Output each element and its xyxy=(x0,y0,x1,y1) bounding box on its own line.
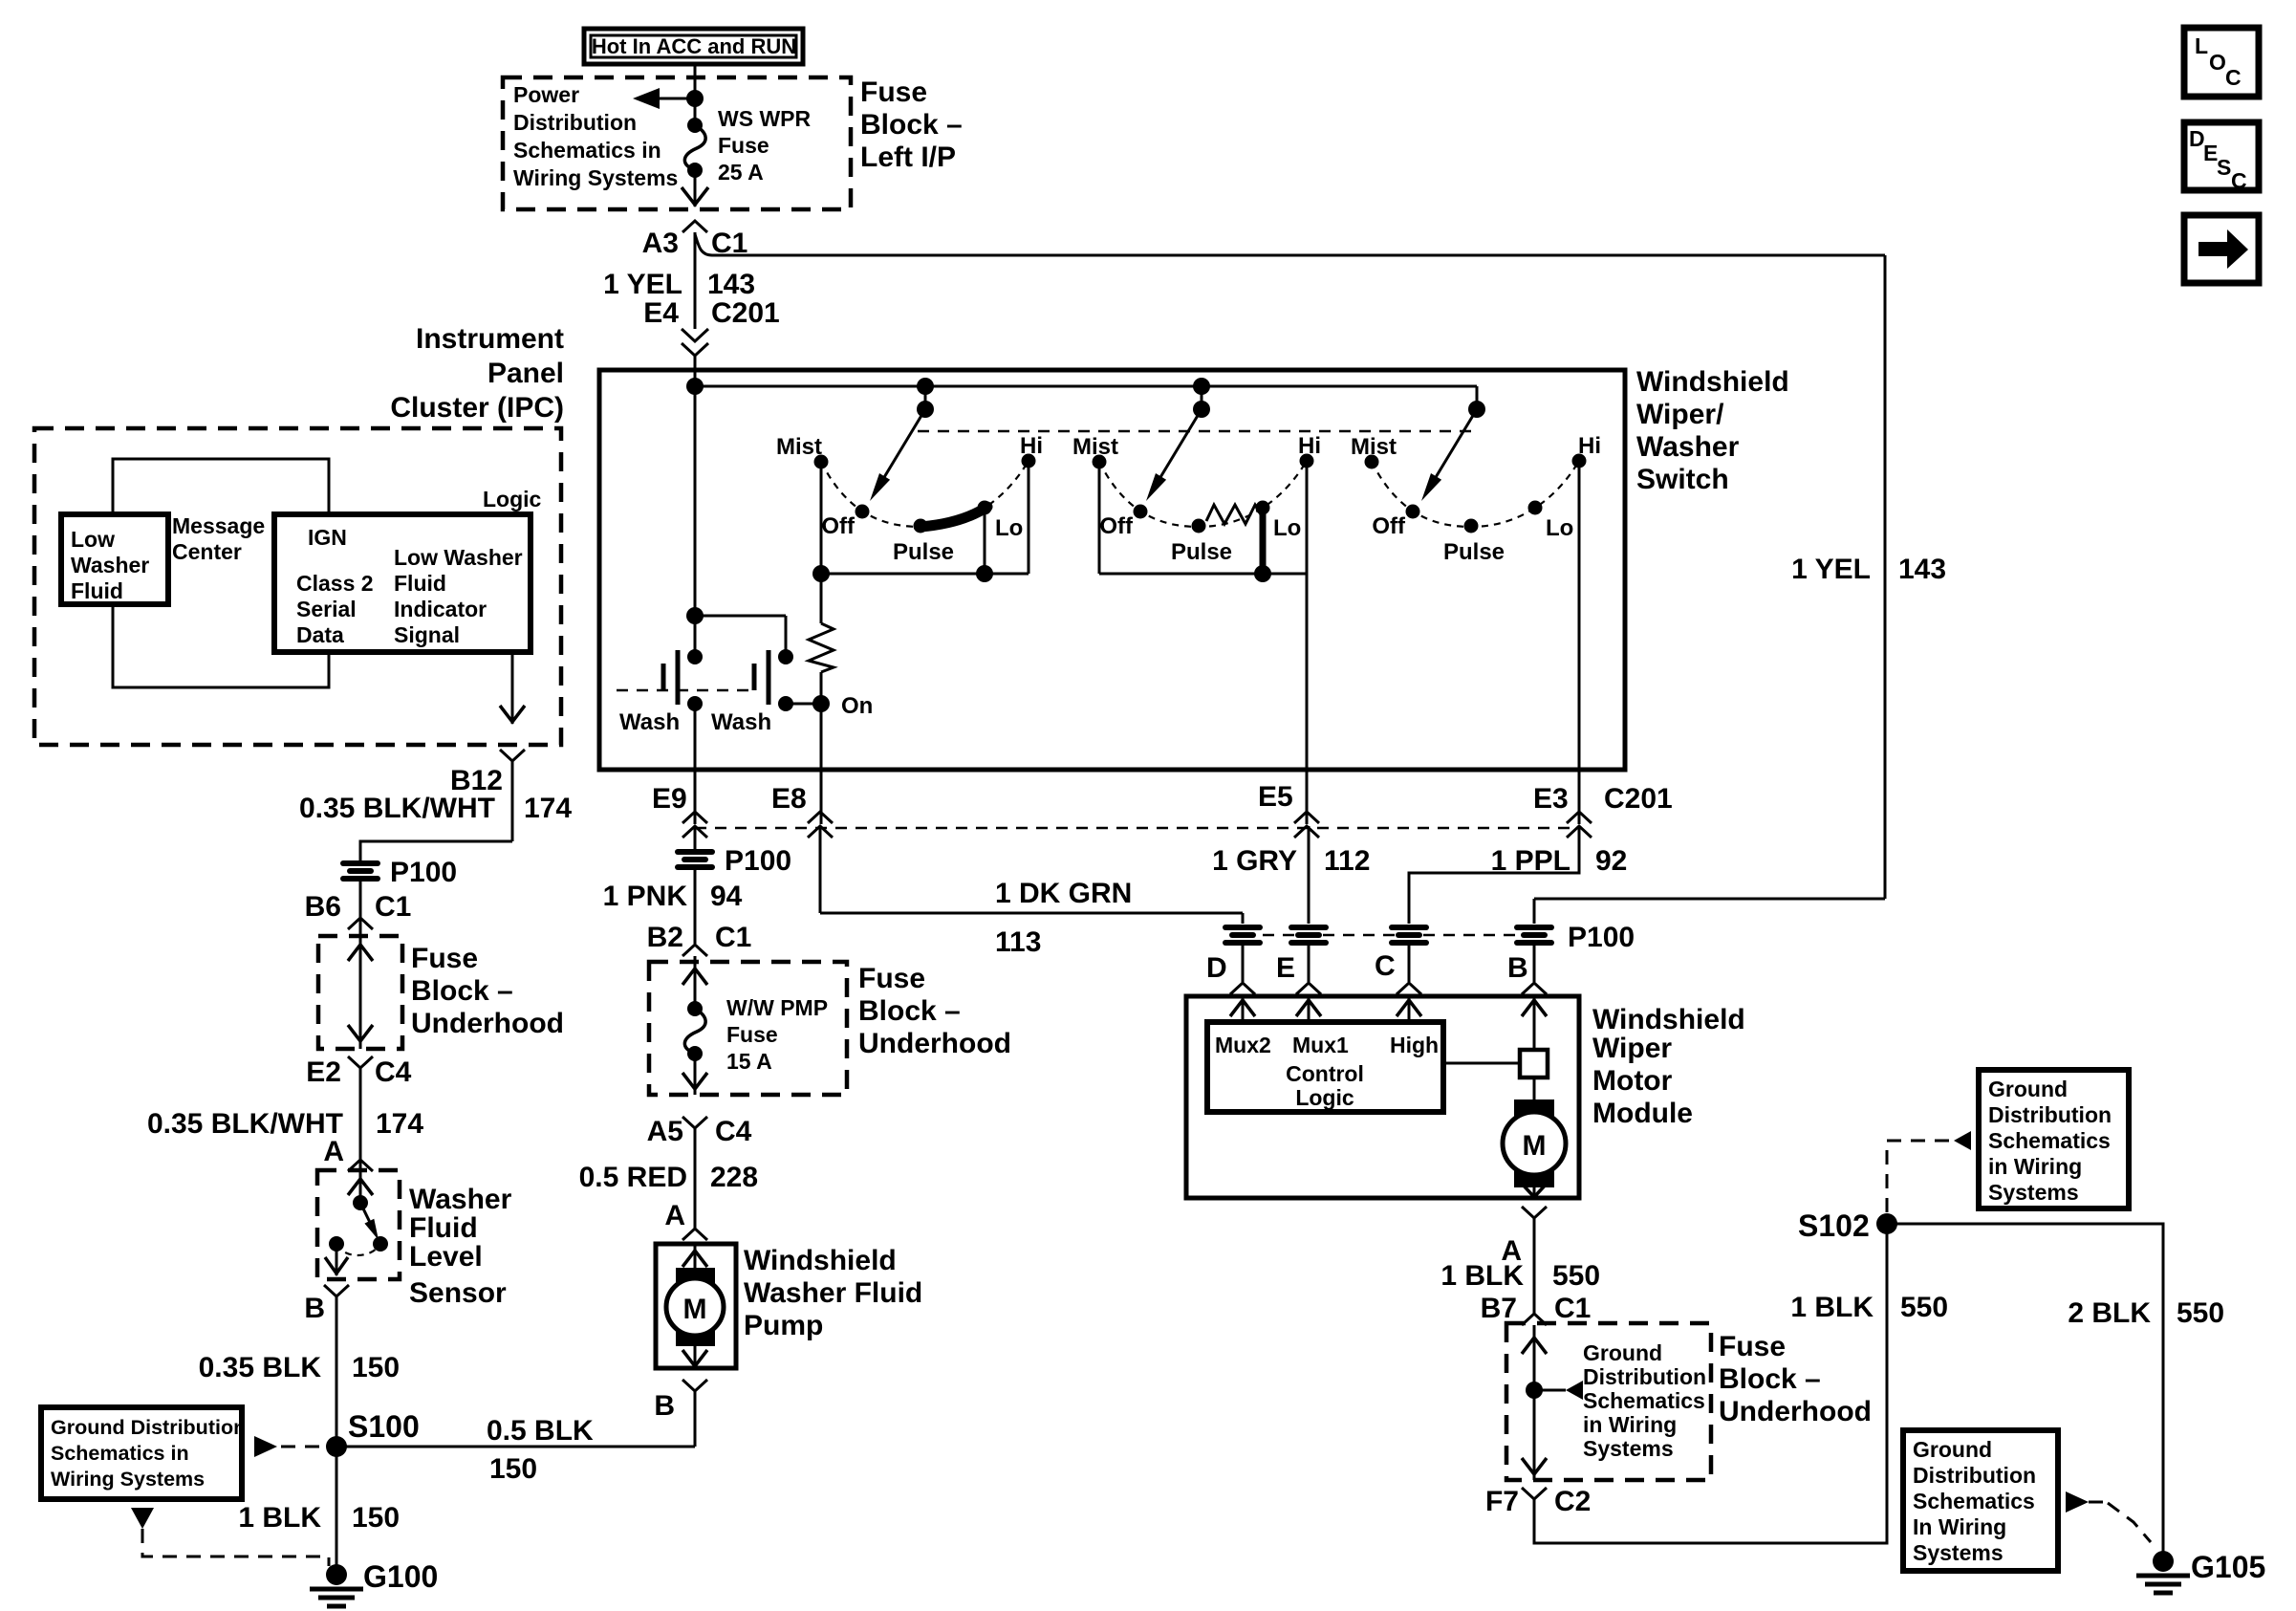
svg-text:Fuse: Fuse xyxy=(858,963,925,994)
wire label 1 BLK 150 xyxy=(238,1502,400,1534)
svg-text:C201: C201 xyxy=(711,297,780,329)
svg-text:Data: Data xyxy=(296,622,344,647)
svg-text:Instrument: Instrument xyxy=(416,323,564,355)
svg-text:C: C xyxy=(1375,950,1396,982)
svg-text:B: B xyxy=(304,1293,325,1324)
svg-text:Washer Fluid: Washer Fluid xyxy=(744,1277,922,1309)
svg-text:112: 112 xyxy=(1324,845,1370,877)
pin A washer fluid level sensor xyxy=(323,1136,373,1171)
svg-text:E9: E9 xyxy=(652,783,687,815)
fuse W/W PMP 15 A xyxy=(684,995,828,1074)
svg-text:Off: Off xyxy=(1099,513,1134,539)
svg-text:Lo: Lo xyxy=(995,515,1023,541)
wire from Hot In box into fuse block xyxy=(694,64,697,125)
svg-text:S: S xyxy=(2217,155,2231,180)
svg-text:Windshield: Windshield xyxy=(1592,1004,1745,1035)
rotary switch 1 dashed contact arc xyxy=(821,461,1029,527)
svg-text:0.35 BLK: 0.35 BLK xyxy=(199,1352,322,1383)
wire label 0.5 BLK 150 xyxy=(487,1415,594,1485)
connector B2 / C1 xyxy=(647,922,752,956)
motor output arrow xyxy=(1522,1184,1547,1197)
pump output arrow xyxy=(682,1346,707,1368)
reference arrow to G105 xyxy=(2066,1491,2151,1542)
svg-text:0.5 BLK: 0.5 BLK xyxy=(487,1415,594,1447)
label Washer Fluid Level Sensor xyxy=(409,1184,512,1309)
control logic box xyxy=(1207,1022,1443,1112)
connector A5 / C4 xyxy=(647,1116,752,1229)
wire 1 YEL right side vertical xyxy=(1534,255,1946,924)
rotary switch 3 dashed contact arc xyxy=(1372,461,1579,527)
svg-text:Ground: Ground xyxy=(1913,1437,1992,1462)
svg-text:Mist: Mist xyxy=(776,434,822,460)
wire E3 to C with label 1 PPL 92 xyxy=(1409,826,1627,924)
switch 1 wiring to output xyxy=(812,461,1029,582)
wire label 1 BLK 550 (S102) xyxy=(1790,1292,1948,1323)
svg-text:Schematics: Schematics xyxy=(1988,1128,2111,1153)
svg-text:Washer: Washer xyxy=(71,553,149,577)
svg-text:150: 150 xyxy=(352,1352,400,1383)
svg-text:C1: C1 xyxy=(1554,1293,1591,1324)
svg-text:0.35 BLK/WHT: 0.35 BLK/WHT xyxy=(147,1108,343,1140)
svg-text:Washer: Washer xyxy=(1636,431,1740,463)
svg-text:Mist: Mist xyxy=(1072,434,1118,460)
svg-text:Power: Power xyxy=(513,82,579,107)
svg-text:Ground: Ground xyxy=(1988,1077,2068,1101)
svg-text:Fuse: Fuse xyxy=(726,1022,778,1047)
power feed label box "Hot In ACC and RUN" xyxy=(584,29,803,64)
svg-text:Fuse: Fuse xyxy=(860,76,927,108)
svg-text:Fuse: Fuse xyxy=(718,133,769,158)
wire message center to logic (top) xyxy=(113,459,329,514)
wire label 2 BLK 550 xyxy=(2068,1297,2224,1329)
svg-text:Center: Center xyxy=(172,539,242,564)
dashed reference S102 to ground distribution box xyxy=(1887,1131,1971,1212)
ground distribution reference box (bottom right) xyxy=(1903,1430,2058,1571)
svg-text:B7: B7 xyxy=(1481,1293,1517,1324)
svg-text:1 GRY: 1 GRY xyxy=(1212,845,1297,877)
svg-text:Systems: Systems xyxy=(1913,1540,2004,1565)
relay contact square xyxy=(1443,1050,1548,1078)
reference arrow to S100 xyxy=(254,1436,325,1457)
ground distribution reference box (bottom left) xyxy=(41,1407,246,1499)
instrument panel cluster dashed box xyxy=(34,428,561,745)
svg-text:Off: Off xyxy=(821,513,856,539)
svg-text:Off: Off xyxy=(1372,513,1406,539)
svg-text:Block –: Block – xyxy=(411,975,513,1007)
svg-text:Underhood: Underhood xyxy=(411,1008,564,1039)
svg-text:Message: Message xyxy=(172,513,265,538)
splice S102 xyxy=(1798,1208,1897,1243)
low washer fluid telltale box xyxy=(61,514,168,604)
wash switch branch wire xyxy=(686,607,786,657)
svg-text:Block –: Block – xyxy=(1719,1363,1821,1395)
grommet D xyxy=(1223,925,1263,946)
switch 1 contacts xyxy=(814,454,1036,533)
svg-text:Block –: Block – xyxy=(860,109,963,141)
grommet P100 row dashed link xyxy=(1243,934,1534,937)
svg-text:Level: Level xyxy=(409,1241,483,1273)
fuse block underhood dashed box (right) xyxy=(1506,1323,1711,1480)
svg-text:Cluster (IPC): Cluster (IPC) xyxy=(390,392,564,424)
svg-text:25 A: 25 A xyxy=(718,160,764,185)
fuse block underhood dashed box (middle) xyxy=(649,962,847,1095)
svg-text:15 A: 15 A xyxy=(726,1049,772,1074)
svg-text:B2: B2 xyxy=(647,922,683,953)
svg-text:150: 150 xyxy=(489,1453,537,1485)
svg-text:E5: E5 xyxy=(1258,781,1293,813)
svg-text:Fluid: Fluid xyxy=(409,1212,478,1244)
svg-text:S100: S100 xyxy=(348,1409,420,1444)
label Message Center xyxy=(172,513,265,564)
wire F7 to S102 xyxy=(1534,1224,1887,1543)
wire E8 to 1 DK GRN run xyxy=(820,826,1243,924)
svg-text:Logic: Logic xyxy=(483,487,542,512)
reference arrow to G100 xyxy=(131,1508,329,1566)
svg-text:Mux1: Mux1 xyxy=(1292,1033,1349,1057)
wire switch 2 Hi to E5 exit xyxy=(1306,461,1309,824)
switch 3 position labels xyxy=(1351,433,1601,565)
svg-text:550: 550 xyxy=(1900,1292,1948,1323)
wire label 0.35 BLK/WHT 174 (IPC) xyxy=(299,793,572,824)
svg-text:1 YEL: 1 YEL xyxy=(603,269,682,300)
svg-text:174: 174 xyxy=(524,793,572,824)
svg-text:Class 2: Class 2 xyxy=(296,571,374,596)
wash switch 1 (on E9 wire) xyxy=(663,386,703,711)
node junction at fuse feed xyxy=(686,90,704,107)
svg-text:Signal: Signal xyxy=(394,622,460,647)
svg-text:Distribution: Distribution xyxy=(1583,1364,1706,1389)
module B input arrow xyxy=(1522,996,1547,1050)
svg-text:92: 92 xyxy=(1595,845,1627,877)
switch arm arrow 2 xyxy=(1146,409,1202,501)
svg-text:Hi: Hi xyxy=(1298,433,1321,459)
On contact xyxy=(812,693,873,719)
svg-text:WS WPR: WS WPR xyxy=(718,106,811,131)
wire E9 to P100 xyxy=(694,826,697,850)
connector B12 (double chevron below IPC box) xyxy=(450,750,525,841)
svg-text:Fluid: Fluid xyxy=(71,578,123,603)
ground distribution reference box (top right) xyxy=(1979,1070,2129,1208)
svg-text:Distribution: Distribution xyxy=(1913,1463,2036,1488)
svg-text:On: On xyxy=(841,693,873,719)
svg-text:A: A xyxy=(323,1136,344,1167)
sensor output arrow xyxy=(325,1244,348,1275)
wire logic output to B12 with arrow xyxy=(500,652,525,724)
wire switch 3 Hi to E3 exit xyxy=(1578,461,1581,824)
svg-text:E2: E2 xyxy=(306,1056,341,1088)
label Windshield Washer Fluid Pump xyxy=(744,1245,922,1341)
svg-text:150: 150 xyxy=(352,1502,400,1534)
wire label 1 GRY 112 xyxy=(1212,826,1370,924)
svg-text:Switch: Switch xyxy=(1636,464,1729,495)
svg-text:0.35 BLK/WHT: 0.35 BLK/WHT xyxy=(299,793,495,824)
svg-text:Wiring Systems: Wiring Systems xyxy=(51,1468,205,1491)
svg-text:C2: C2 xyxy=(1554,1486,1591,1517)
connector pin B of sensor xyxy=(304,1285,349,1447)
wire S100 to pump B xyxy=(336,1446,695,1448)
label Fuse Block - Underhood (right) xyxy=(1719,1331,1872,1427)
connector E8 xyxy=(771,783,833,838)
svg-text:G105: G105 xyxy=(2191,1550,2265,1584)
svg-text:C4: C4 xyxy=(715,1116,752,1147)
connector E5 xyxy=(1258,781,1319,838)
svg-text:Schematics: Schematics xyxy=(1583,1388,1705,1413)
svg-text:228: 228 xyxy=(710,1162,758,1193)
module input arrows D E C xyxy=(1230,996,1255,1022)
svg-text:1 YEL: 1 YEL xyxy=(1791,554,1871,585)
wire label 0.35 BLK 150 xyxy=(199,1352,400,1383)
svg-text:1 BLK: 1 BLK xyxy=(1440,1260,1524,1292)
wiper motor M xyxy=(1503,1078,1566,1187)
wire label 0.5 RED 228 xyxy=(579,1162,758,1193)
svg-text:G100: G100 xyxy=(363,1559,438,1594)
svg-text:0.5 RED: 0.5 RED xyxy=(579,1162,687,1193)
svg-text:Schematics: Schematics xyxy=(1913,1489,2035,1513)
next page arrow button xyxy=(2184,215,2259,283)
pin B of pump xyxy=(654,1380,707,1447)
note: Power Distribution Schematics in Wiring Systems xyxy=(513,82,678,190)
svg-text:B: B xyxy=(654,1390,675,1422)
svg-text:1 DK GRN: 1 DK GRN xyxy=(995,878,1132,909)
dashed wash linkage xyxy=(617,689,751,692)
svg-text:in Wiring: in Wiring xyxy=(1988,1154,2082,1179)
svg-text:Distribution: Distribution xyxy=(513,110,637,135)
svg-text:B: B xyxy=(1507,952,1528,984)
switch arm arrow 1 xyxy=(870,409,925,501)
svg-text:143: 143 xyxy=(707,269,755,300)
logic box xyxy=(274,514,531,652)
wire into box with up arrow xyxy=(1522,1325,1547,1390)
dashed mechanical linkage of switch arms xyxy=(918,430,1477,433)
splice S100 xyxy=(326,1409,420,1457)
svg-text:M: M xyxy=(683,1294,707,1325)
svg-text:Windshield: Windshield xyxy=(1636,366,1789,398)
svg-text:Hot In ACC and RUN: Hot In ACC and RUN xyxy=(592,34,796,58)
svg-text:Distribution: Distribution xyxy=(1988,1102,2112,1127)
svg-text:Systems: Systems xyxy=(1583,1436,1674,1461)
grommet P100 (middle) xyxy=(675,845,791,877)
svg-text:Underhood: Underhood xyxy=(858,1028,1011,1059)
wash labels xyxy=(619,709,771,735)
fuse block underhood dashed box (left) xyxy=(318,936,402,1049)
svg-text:F7: F7 xyxy=(1485,1486,1519,1517)
label Windshield Wiper Motor Module xyxy=(1592,1004,1745,1129)
svg-text:Wiper/: Wiper/ xyxy=(1636,399,1724,430)
svg-text:O: O xyxy=(2209,50,2226,75)
switch 2 wiring to output xyxy=(1099,462,1307,582)
wash switch 2 xyxy=(754,649,821,711)
svg-text:Lo: Lo xyxy=(1273,515,1301,541)
svg-text:A3: A3 xyxy=(642,228,679,259)
svg-text:High: High xyxy=(1390,1033,1439,1057)
pump motor M xyxy=(666,1268,724,1346)
label Fuse Block - Underhood (left) xyxy=(411,943,564,1039)
svg-text:L: L xyxy=(2195,33,2208,58)
switch 2 contacts xyxy=(1093,454,1314,533)
switch 1 wiper thick arc Pulse to Lo xyxy=(921,507,987,527)
label Windshield Wiper/Washer Switch xyxy=(1636,366,1789,495)
svg-text:Indicator: Indicator xyxy=(394,597,487,621)
svg-text:A5: A5 xyxy=(647,1116,683,1147)
label Fuse Block - Left I/P xyxy=(860,76,963,173)
svg-text:C1: C1 xyxy=(715,922,751,953)
fuse block left I/P dashed box xyxy=(503,77,851,209)
switch 2 resistor on arc xyxy=(1206,505,1262,524)
switch 1 position labels xyxy=(776,433,1043,565)
svg-text:550: 550 xyxy=(1552,1260,1600,1292)
grommet C xyxy=(1389,925,1429,946)
label Fuse Block - Underhood (middle) xyxy=(858,963,1011,1059)
sensor input arrow xyxy=(348,1170,373,1203)
svg-text:Ground: Ground xyxy=(1583,1340,1662,1365)
svg-text:Block –: Block – xyxy=(858,995,961,1027)
svg-text:Pulse: Pulse xyxy=(1171,539,1232,565)
wire B12 down to P100 xyxy=(360,841,512,862)
connector E9 xyxy=(652,783,707,838)
wire branch C1 to right (1 YEL 143 feed) xyxy=(695,234,1885,255)
wire fuse to connector A3 with down arrow xyxy=(682,170,708,207)
label Instrument Panel Cluster (IPC) xyxy=(390,323,564,424)
svg-text:Mux2: Mux2 xyxy=(1215,1033,1271,1057)
connector E3 / C201 xyxy=(1533,783,1673,838)
wire message center to logic (bottom) xyxy=(113,604,329,687)
LOC reference button xyxy=(2184,28,2259,97)
svg-text:C: C xyxy=(2225,65,2242,90)
svg-text:Pulse: Pulse xyxy=(893,539,954,565)
svg-text:M: M xyxy=(1523,1130,1547,1162)
svg-text:E: E xyxy=(1276,952,1295,984)
svg-text:94: 94 xyxy=(710,881,743,912)
svg-text:D: D xyxy=(1206,952,1227,984)
svg-text:C4: C4 xyxy=(375,1056,412,1088)
resistor in switch 1 output xyxy=(809,574,834,704)
pin A of washer pump xyxy=(664,1200,707,1240)
rotary switch 2 dashed contact arc xyxy=(1099,461,1307,527)
wire label 0.35 BLK/WHT 174 (sensor) xyxy=(147,1108,423,1140)
svg-text:Systems: Systems xyxy=(1988,1180,2079,1205)
svg-text:Panel: Panel xyxy=(487,358,564,389)
svg-text:P100: P100 xyxy=(1568,922,1635,953)
svg-text:Logic: Logic xyxy=(1295,1085,1354,1110)
ground distribution reference inside fuse block xyxy=(1526,1340,1706,1461)
svg-text:in Wiring: in Wiring xyxy=(1583,1412,1677,1437)
svg-text:IGN: IGN xyxy=(308,525,347,550)
svg-text:1 BLK: 1 BLK xyxy=(238,1502,321,1534)
connector A3 / C1 xyxy=(642,221,748,259)
svg-text:Mist: Mist xyxy=(1351,434,1397,460)
ground G105 xyxy=(2136,1550,2265,1593)
wire label 1 DK GRN 113 xyxy=(995,878,1132,958)
connector E2 / C4 xyxy=(306,1056,411,1170)
svg-text:Control: Control xyxy=(1286,1061,1364,1086)
svg-text:Module: Module xyxy=(1592,1098,1693,1129)
svg-text:C201: C201 xyxy=(1604,783,1673,815)
svg-text:Schematics in: Schematics in xyxy=(51,1442,189,1465)
svg-text:W/W PMP: W/W PMP xyxy=(726,995,828,1020)
wire through fuse block with arrows xyxy=(348,936,373,1049)
wire P100 to fuse block underhood xyxy=(359,882,362,936)
svg-text:Wiring Systems: Wiring Systems xyxy=(513,165,678,190)
grommet B with label P100 xyxy=(1514,922,1635,953)
svg-text:E3: E3 xyxy=(1533,783,1569,815)
svg-text:Wiper: Wiper xyxy=(1592,1033,1672,1064)
arrow to power distribution reference xyxy=(633,88,695,109)
svg-text:Ground Distribution: Ground Distribution xyxy=(51,1416,246,1439)
svg-text:Low Washer: Low Washer xyxy=(394,545,523,570)
svg-text:143: 143 xyxy=(1898,554,1946,585)
svg-text:Windshield: Windshield xyxy=(744,1245,897,1276)
fuse WS WPR 25 A xyxy=(684,106,811,185)
svg-text:E8: E8 xyxy=(771,783,807,815)
windshield wiper/washer switch box xyxy=(599,370,1625,770)
svg-text:Low: Low xyxy=(71,527,115,552)
svg-text:Pump: Pump xyxy=(744,1310,823,1341)
switch 3 contacts xyxy=(1365,454,1587,533)
windshield wiper motor module box xyxy=(1186,996,1579,1198)
wire On to E8 exit xyxy=(820,704,823,824)
svg-text:P100: P100 xyxy=(725,845,791,877)
svg-text:1 PNK: 1 PNK xyxy=(603,881,688,912)
switch arm arrow 3 xyxy=(1421,409,1477,501)
grommet E xyxy=(1289,925,1329,946)
connector F7 / C2 xyxy=(1485,1486,1591,1517)
wire label 1 PNK 94 xyxy=(603,870,743,944)
svg-text:Hi: Hi xyxy=(1020,433,1043,459)
svg-text:174: 174 xyxy=(376,1108,423,1140)
svg-text:B6: B6 xyxy=(305,891,341,923)
wire out of box with down arrow xyxy=(1522,1390,1547,1480)
windshield washer fluid pump box xyxy=(656,1244,736,1368)
grommet P100 (left) xyxy=(340,857,457,888)
svg-text:Fluid: Fluid xyxy=(394,571,446,596)
svg-text:S102: S102 xyxy=(1798,1208,1870,1243)
svg-text:Motor: Motor xyxy=(1592,1065,1673,1097)
svg-text:Underhood: Underhood xyxy=(1719,1396,1872,1427)
svg-text:Schematics in: Schematics in xyxy=(513,138,661,163)
svg-text:Fuse: Fuse xyxy=(411,943,478,974)
ground G100 xyxy=(310,1447,438,1606)
pump input arrow xyxy=(682,1244,707,1272)
connector B7 / C1 xyxy=(1481,1293,1592,1325)
svg-text:Serial: Serial xyxy=(296,597,357,621)
svg-text:A: A xyxy=(664,1200,685,1231)
svg-text:Washer: Washer xyxy=(409,1184,512,1215)
svg-text:P100: P100 xyxy=(390,857,457,888)
svg-text:Wash: Wash xyxy=(711,709,771,735)
svg-text:C1: C1 xyxy=(375,891,411,923)
svg-text:Wash: Wash xyxy=(619,709,680,735)
svg-text:1 PPL: 1 PPL xyxy=(1491,845,1570,877)
svg-text:Pulse: Pulse xyxy=(1443,539,1505,565)
svg-text:2 BLK: 2 BLK xyxy=(2068,1297,2151,1329)
wire into fuse with arrow xyxy=(682,956,707,1009)
svg-text:Sensor: Sensor xyxy=(409,1277,507,1309)
switch 2 position labels xyxy=(1072,433,1321,565)
svg-text:Lo: Lo xyxy=(1546,515,1573,541)
svg-text:Left I/P: Left I/P xyxy=(860,142,956,173)
internal supply bus wire xyxy=(686,378,1485,418)
washer fluid level sensor dashed box xyxy=(317,1170,400,1279)
connector pins D E C B xyxy=(1206,946,1255,996)
svg-text:In Wiring: In Wiring xyxy=(1913,1514,2006,1539)
sensor switch arm xyxy=(353,1195,379,1240)
svg-text:Fuse: Fuse xyxy=(1719,1331,1786,1362)
wire label 1 BLK 550 (module) xyxy=(1440,1260,1600,1292)
svg-text:E4: E4 xyxy=(643,297,679,329)
connector B6 / C1 xyxy=(305,891,412,929)
wire out of fuse with down arrow xyxy=(682,1054,707,1095)
in-line connector E4 / C201 xyxy=(643,232,779,386)
